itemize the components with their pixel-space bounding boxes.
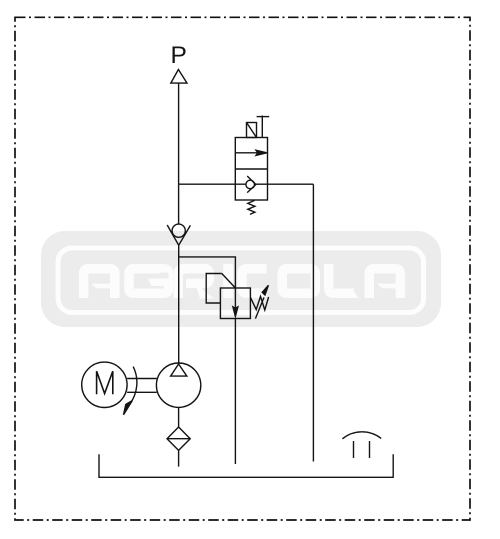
pump P1 [156, 363, 200, 407]
wire: valve right port to right drain line [268, 183, 314, 185]
relief valve RV1 flow arrow (down) [234, 288, 236, 308]
wire: relief valve outlet to tank [234, 319, 236, 465]
G [129, 269, 169, 294]
manual override pin [261, 116, 263, 138]
svg-text:P: P [171, 42, 187, 69]
valve U1 return spring [248, 200, 255, 214]
wire: branch to relief valve (horizontal + vertical) [179, 257, 236, 288]
relief valve RV1 pilot diagonal [222, 274, 236, 289]
C [242, 269, 267, 293]
rotation direction arrow [130, 367, 137, 405]
valve U1 position divider [235, 168, 267, 170]
motor M letter [97, 371, 113, 394]
pump outlet triangle [171, 364, 187, 376]
O [282, 269, 315, 294]
relief valve RV1 pilot box [206, 274, 222, 304]
motor M1 [82, 362, 127, 407]
check valve CV1 [167, 224, 190, 245]
breather/filler cap [342, 432, 381, 439]
A (last) [369, 269, 400, 298]
port P symbol (triangle) [171, 70, 187, 84]
valve U1 internal flow line [235, 183, 267, 185]
wire: branch to solenoid valve left port [179, 183, 236, 185]
tank T1 [99, 454, 393, 477]
watermark band [41, 231, 441, 327]
I [223, 264, 233, 298]
wire: pump outlet up (already on main line) [178, 363, 180, 364]
A [84, 269, 115, 298]
shaft coupling [127, 378, 157, 380]
wire: pump inlet down to filter [178, 407, 180, 427]
wire: right drain line down to tank [312, 184, 314, 461]
wire: branch down to check valve CV1 [178, 184, 180, 224]
relief valve RV1 adjustment arrow [255, 297, 264, 318]
wire: filter to tank [178, 450, 180, 466]
relief valve RV1 spring [250, 296, 268, 310]
valve U1 check symbol [246, 180, 255, 189]
relief valve RV1 body [220, 288, 250, 319]
R [178, 269, 209, 298]
wire: CV1 to relief branch and down to pump [178, 245, 180, 363]
valve U1 flow arrow [235, 152, 258, 154]
solenoid coil [247, 123, 257, 138]
solenoid valve U1 body [235, 138, 267, 201]
filter F1 [167, 427, 190, 450]
L [329, 264, 354, 293]
wire: P triangle to valve branch [178, 83, 180, 184]
